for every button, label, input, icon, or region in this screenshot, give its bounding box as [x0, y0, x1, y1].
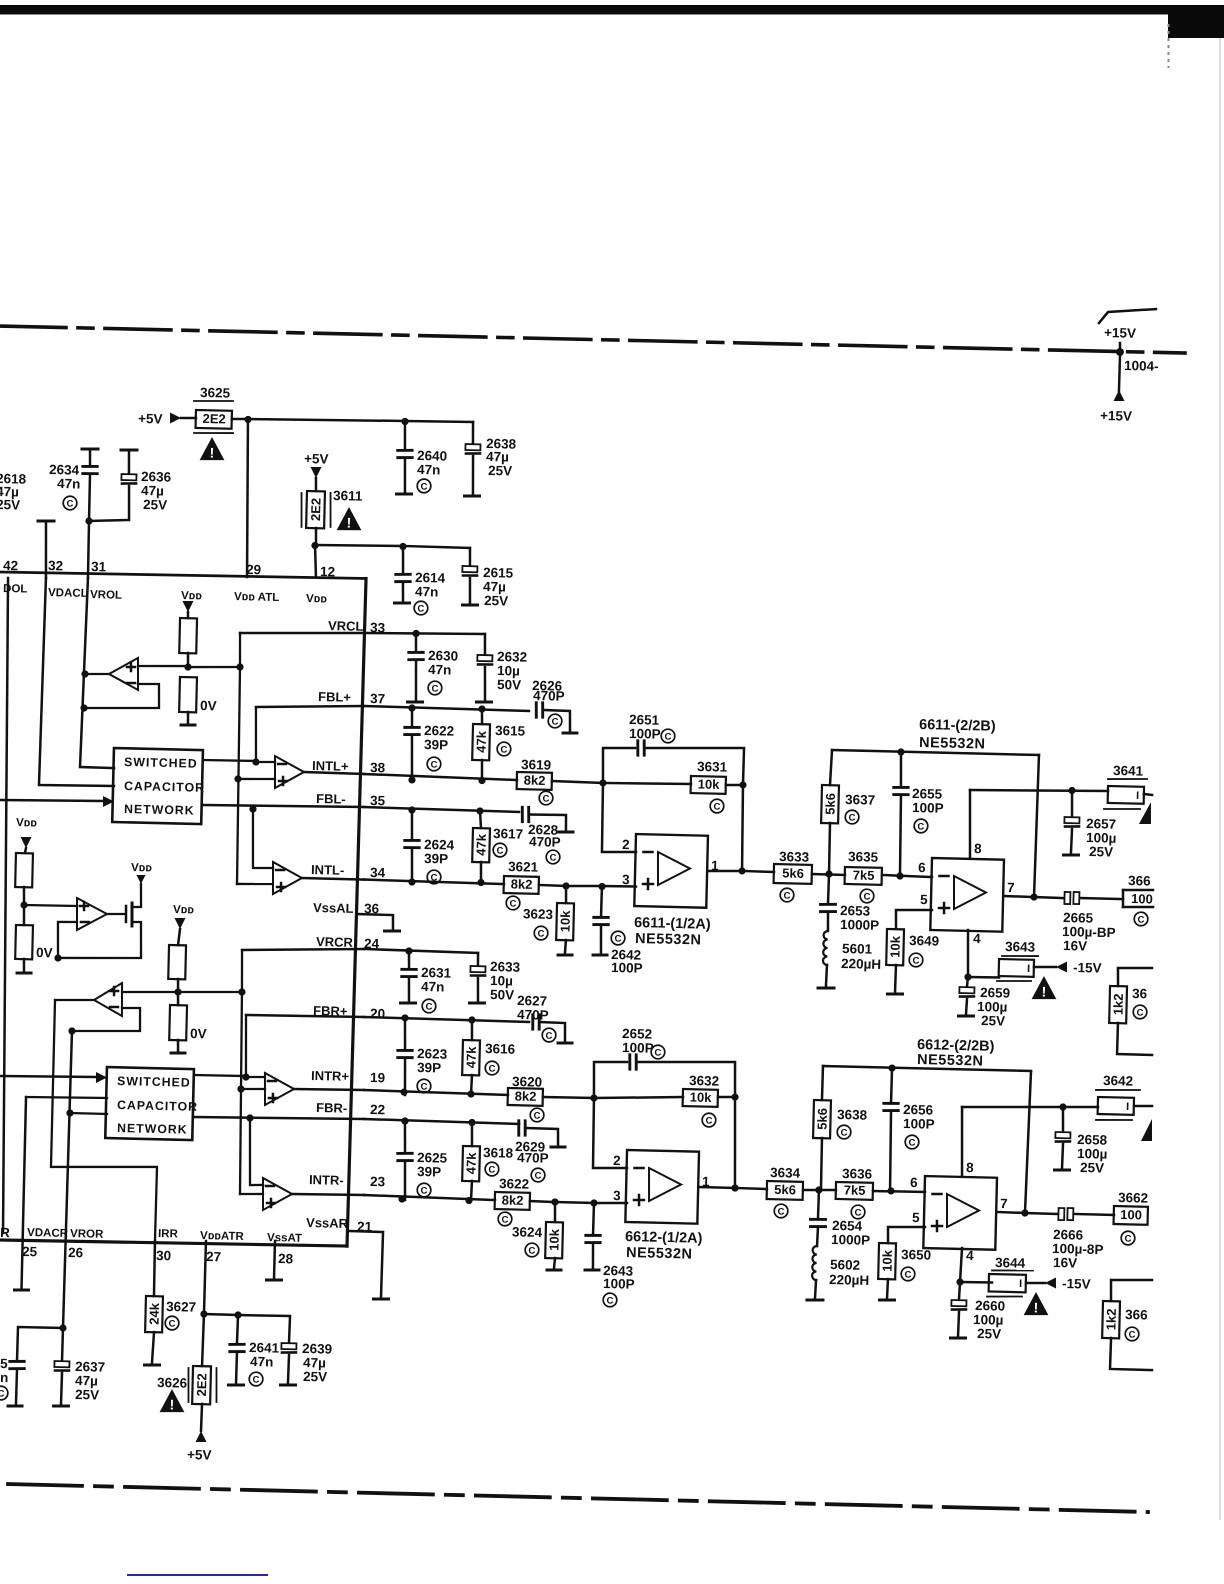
svg-text:47k: 47k — [463, 1046, 479, 1069]
pin 34 INTL- label — [311, 862, 386, 880]
node divider R mid — [122, 986, 246, 998]
resistor 3667 1k2 — [1101, 1279, 1154, 1370]
capacitor 2622 39P — [404, 708, 455, 781]
warning triangle at 3611 — [337, 507, 362, 531]
svg-text:3625: 3625 — [200, 385, 231, 401]
svg-text:3619: 3619 — [521, 757, 551, 773]
capacitor 2627 470P — [516, 993, 566, 1041]
warning triangle at 3644 — [1024, 1292, 1049, 1316]
svg-text:16V: 16V — [1063, 938, 1087, 954]
ground 2631 — [401, 1001, 416, 1005]
resistor divider L upper — [179, 618, 197, 667]
svg-text:C: C — [917, 821, 924, 832]
svg-text:INTR+: INTR+ — [311, 1068, 350, 1084]
svg-text:C: C — [501, 1214, 508, 1225]
node VROL filter junction — [84, 517, 93, 578]
op-amp U6612 (2/2B) NE5532N — [923, 1106, 998, 1250]
resistor 3662 100 — [1114, 1190, 1149, 1225]
pin 20 FBR+ label — [313, 1003, 385, 1021]
ground 2639 — [281, 1383, 296, 1387]
pin 35 FBL- label — [316, 791, 386, 808]
svg-text:0V: 0V — [36, 945, 53, 960]
resistor 3622 8k2 — [495, 1176, 556, 1211]
svg-text:C: C — [1124, 1234, 1131, 1245]
svg-text:25V: 25V — [488, 463, 512, 479]
resistor 3617 47k — [472, 811, 524, 883]
svg-text:100P: 100P — [629, 726, 661, 742]
resistor 3623 10k — [522, 885, 574, 953]
wire 6612B feedback rail — [822, 1063, 1031, 1105]
copyright mark 3638 — [837, 1125, 851, 1139]
op-amp INTL+ (internal) — [274, 756, 364, 790]
svg-text:8k2: 8k2 — [524, 772, 546, 788]
capacitor 2642 100P — [592, 886, 644, 976]
ground 26x5 — [8, 1404, 22, 1408]
capacitor 2658 100u 25V (electrolytic) — [1054, 1107, 1108, 1176]
svg-text:3633: 3633 — [779, 849, 810, 865]
resistor divider L lower 0V — [179, 677, 217, 724]
wire INTL- row pin 34 — [364, 876, 504, 888]
wire VRCR internal riser — [235, 950, 248, 1194]
capacitor 2630 47n — [408, 633, 459, 701]
svg-text:30: 30 — [156, 1248, 171, 1263]
svg-text:VRCL: VRCL — [328, 618, 364, 634]
svg-text:3: 3 — [613, 1188, 621, 1203]
svg-text:27: 27 — [206, 1249, 221, 1264]
label VDD mid block — [15, 817, 37, 853]
node 6612A inverting net — [590, 1094, 597, 1101]
capacitor 2638 47u 25V (electrolytic) — [464, 422, 517, 495]
pin 21 VssAR stub — [304, 1215, 390, 1299]
svg-text:VRCR: VRCR — [316, 934, 354, 950]
node 3637/2653 tap — [825, 870, 832, 877]
node 6611A inverting net — [599, 779, 606, 786]
svg-text:+15V: +15V — [1104, 325, 1136, 341]
wire INTR+ row pin 19 — [364, 1088, 508, 1099]
svg-text:C: C — [168, 1319, 175, 1330]
svg-text:I: I — [1027, 963, 1030, 975]
pin labels top inside — [3, 583, 328, 607]
svg-text:5: 5 — [912, 1210, 920, 1225]
svg-text:8k2: 8k2 — [502, 1192, 524, 1208]
resistor 3645 1k2 — [1108, 967, 1154, 1055]
svg-text:220µH: 220µH — [841, 956, 881, 972]
svg-text:100P: 100P — [611, 960, 643, 976]
wire SCN R out to INTR+ inv — [194, 1014, 267, 1081]
svg-text:C: C — [606, 1295, 613, 1306]
svg-text:VssAL: VssAL — [313, 900, 354, 916]
svg-text:C: C — [417, 604, 424, 615]
svg-text:R: R — [0, 1225, 10, 1240]
resistor 3649 10k — [886, 929, 940, 993]
copyright mark 2631 — [422, 999, 436, 1013]
capacitor 2640 47n — [397, 421, 448, 493]
wire FBR+ row pin 20 — [246, 1011, 529, 1025]
capacitor 2666 100u-8P 16V (bipolar) — [1052, 1208, 1115, 1272]
svg-text:+5V: +5V — [187, 1447, 212, 1463]
copyright mark 3661 — [1134, 912, 1148, 926]
svg-text:47n: 47n — [57, 476, 81, 492]
svg-text:+15V: +15V — [1100, 408, 1132, 424]
svg-text:+5V: +5V — [138, 411, 163, 427]
wire mid feedback — [54, 921, 77, 962]
wire data input R with arrow — [0, 1070, 107, 1084]
wire VRCR row external — [364, 946, 478, 956]
ground divider R — [171, 1051, 185, 1055]
svg-text:C: C — [1128, 1329, 1135, 1340]
svg-text:5: 5 — [0, 1356, 8, 1371]
wire 3611 to 2614/2615 — [315, 541, 470, 552]
op-amp U6611 (2/2B) NE5532N — [930, 789, 1005, 932]
copyright mark 2625 — [417, 1183, 431, 1197]
svg-text:42: 42 — [3, 558, 18, 573]
wire SCN L out to INTL+ inv — [203, 707, 276, 766]
wire VDACR into SCN R — [22, 1096, 108, 1290]
svg-text:!: ! — [209, 444, 214, 460]
svg-text:IRR: IRR — [158, 1228, 179, 1240]
copyright mark 3633 — [780, 888, 794, 902]
svg-text:VssAT: VssAT — [267, 1232, 302, 1245]
wire FBR- drop to INTR- inv — [245, 1114, 265, 1185]
resistor 3621 8k2 — [504, 859, 567, 895]
boundary dash-dot line (top) — [0, 325, 1185, 354]
switched capacitor network R — [105, 1067, 199, 1140]
svg-text:C: C — [551, 717, 558, 728]
svg-text:1k2: 1k2 — [1110, 993, 1126, 1015]
svg-text:C: C — [912, 955, 919, 966]
svg-text:C: C — [854, 1208, 861, 1219]
ground 5602 — [807, 1298, 823, 1302]
copyright mark 3637 — [845, 810, 859, 824]
svg-text:37: 37 — [370, 691, 385, 706]
svg-text:0V: 0V — [200, 698, 217, 713]
svg-text:47k: 47k — [463, 1152, 479, 1175]
svg-text:47n: 47n — [428, 662, 452, 678]
node 2642 tap — [598, 871, 636, 890]
svg-text:3662: 3662 — [1118, 1190, 1148, 1206]
svg-text:8k2: 8k2 — [511, 876, 533, 892]
svg-text:22: 22 — [370, 1102, 385, 1117]
svg-text:C: C — [534, 1171, 541, 1182]
copyright mark 3632 — [702, 1113, 716, 1127]
resistor 3624 10k — [511, 1201, 563, 1268]
copyright mark 3636 — [851, 1205, 865, 1219]
label +5V (left feed) — [138, 411, 196, 427]
resistor divider R lower 0V — [169, 992, 208, 1052]
svg-text:NE5532N: NE5532N — [626, 1245, 693, 1263]
resistor mid lower 0V — [15, 905, 54, 972]
pin 23 INTR- label — [309, 1172, 386, 1189]
svg-text:C: C — [904, 1269, 911, 1280]
capacitor 2643 100P — [585, 1203, 637, 1292]
svg-text:Vᴅᴅ ATL: Vᴅᴅ ATL — [234, 591, 279, 604]
svg-text:25V: 25V — [484, 593, 508, 609]
svg-text:7: 7 — [1000, 1196, 1008, 1211]
op-amp INTR+ (internal) — [264, 1073, 364, 1107]
capacitor 2665 100u-BP 16V (bipolar) — [1062, 892, 1124, 955]
svg-text:1k2: 1k2 — [1103, 1308, 1119, 1330]
resistor 3638 5k6 — [812, 1100, 868, 1190]
svg-text:39P: 39P — [417, 1060, 441, 1076]
copyright mark 2630 — [428, 681, 442, 695]
svg-text:3: 3 — [622, 872, 630, 887]
svg-text:I: I — [1126, 1101, 1129, 1113]
svg-text:3627: 3627 — [166, 1299, 196, 1315]
svg-text:C: C — [537, 929, 544, 940]
node mid divider — [20, 901, 77, 910]
svg-text:NE5532N: NE5532N — [917, 1052, 984, 1070]
copyright mark 3635 — [860, 889, 874, 903]
pin 36 VssAL stub — [313, 900, 401, 932]
terminal VssAT pin 28 stub — [266, 1241, 282, 1281]
svg-text:VROR: VROR — [70, 1228, 104, 1241]
svg-text:C: C — [783, 891, 790, 902]
ground 2615 — [463, 603, 478, 607]
resistor 3619 8k2 — [517, 757, 604, 791]
copyright mark 3615 — [497, 742, 511, 756]
capacitor 2628 470P — [521, 807, 566, 850]
inductor 5602 220uH — [812, 1246, 870, 1299]
svg-text:C: C — [509, 898, 516, 909]
resistor 3616 47k — [462, 1020, 517, 1096]
node pin12 rail junction — [311, 542, 318, 549]
svg-text:25V: 25V — [0, 497, 20, 513]
wire divider L to VRCL node — [183, 632, 244, 884]
wire pin12 feed — [314, 545, 316, 577]
svg-text:FBL-: FBL- — [316, 791, 346, 807]
capacitor 2632 10u 50V (electrolytic) — [476, 634, 527, 701]
svg-text:47n: 47n — [250, 1354, 274, 1370]
svg-text:366: 366 — [1125, 1307, 1148, 1323]
capacitor 2655 100P — [892, 752, 945, 877]
svg-text:FBR-: FBR- — [316, 1100, 347, 1116]
svg-text:100P: 100P — [622, 1040, 654, 1056]
svg-text:6: 6 — [918, 860, 926, 875]
svg-text:39P: 39P — [424, 737, 448, 753]
label 6612-(1/2A) — [625, 1229, 703, 1263]
copyright mark 2642 — [611, 931, 625, 945]
svg-text:4: 4 — [973, 931, 981, 946]
op-amp buffer L (internal) — [84, 657, 188, 711]
pin 24 VRCR label — [316, 934, 380, 951]
label +5V (3611 feed) — [303, 451, 328, 491]
resistor mid upper — [15, 853, 33, 905]
svg-text:366: 366 — [1128, 873, 1151, 889]
svg-text:5k6: 5k6 — [782, 865, 804, 881]
node 3623 tap — [562, 882, 602, 890]
svg-text:7k5: 7k5 — [844, 1182, 866, 1198]
svg-text:3644: 3644 — [995, 1255, 1026, 1271]
copyright mark 3650 — [901, 1267, 915, 1281]
svg-text:INTL-: INTL- — [311, 862, 345, 878]
IC box right edge — [347, 578, 366, 1246]
wire VROR into SCN R — [66, 1109, 107, 1117]
label 6611-(2/2B) — [919, 717, 997, 753]
copyright mark 3621 — [506, 896, 520, 910]
copyright mark 3617 — [493, 843, 507, 857]
svg-text:C: C — [542, 794, 549, 805]
svg-text:10k: 10k — [698, 776, 721, 792]
wire 6612A pin2 — [592, 1098, 628, 1169]
node +15V junction 1004 — [1100, 348, 1159, 425]
svg-text:C: C — [705, 1116, 712, 1127]
op-amp INTL- (internal) — [272, 862, 364, 896]
wire INTR- row pin 23 — [364, 1194, 495, 1204]
capacitor 2653 1000P — [820, 874, 880, 933]
svg-text:3634: 3634 — [770, 1165, 801, 1181]
svg-text:3618: 3618 — [483, 1145, 514, 1161]
label 2618 47u 25V (cut at page edge) — [0, 471, 27, 513]
svg-text:100: 100 — [1120, 1207, 1142, 1223]
capacitor 2651 100P (feedback) — [602, 711, 745, 786]
copyright mark 2622 — [427, 757, 441, 771]
wire 6612B output pin7 — [997, 1070, 1060, 1217]
ground divider L — [181, 723, 195, 727]
svg-text:5k6: 5k6 — [774, 1182, 796, 1198]
resistor 3642 1ohm (fusible) — [1095, 1073, 1152, 1121]
svg-text:6611-(1/2A): 6611-(1/2A) — [634, 915, 711, 933]
resistor 3661 100 (cut at page edge) — [1123, 873, 1154, 908]
wire data input L with arrow — [0, 794, 114, 808]
svg-text:C: C — [430, 759, 437, 770]
svg-text:50V: 50V — [490, 987, 514, 1003]
resistor 3635 7k5 — [845, 849, 933, 886]
capacitor 2637 47u 25V (electrolytic) — [54, 1328, 107, 1405]
capacitor 2631 47n — [401, 951, 452, 1002]
svg-text:3617: 3617 — [493, 826, 523, 842]
copyright mark 2614 — [414, 601, 428, 615]
svg-text:NE5532N: NE5532N — [919, 735, 986, 753]
copyright mark 3618 — [485, 1162, 499, 1176]
boundary dash-dot line (bottom) — [8, 1484, 1148, 1512]
svg-text:Vᴅᴅ: Vᴅᴅ — [131, 862, 153, 874]
copyright mark 2624 — [427, 870, 441, 884]
resistor 3611 2E2 — [300, 487, 363, 546]
copyright mark 2626 — [548, 714, 562, 728]
ground 3627 — [145, 1363, 160, 1367]
svg-text:25V: 25V — [143, 497, 167, 513]
svg-text:+5V: +5V — [304, 451, 329, 467]
svg-text:C: C — [549, 853, 556, 864]
svg-text:100P: 100P — [603, 1276, 635, 1292]
svg-text:28: 28 — [278, 1251, 294, 1266]
copyright mark 2628 — [546, 850, 560, 864]
svg-text:C: C — [66, 499, 73, 510]
wire 6612A output riser — [733, 1097, 737, 1188]
ground 2658 — [1054, 1168, 1069, 1172]
svg-text:47n: 47n — [415, 584, 439, 600]
svg-text:DOL: DOL — [3, 583, 28, 596]
copyright mark 3662 — [1121, 1231, 1135, 1245]
svg-text:1000P: 1000P — [840, 917, 879, 933]
node 2655 tap — [896, 859, 926, 880]
node divider L mid — [184, 663, 191, 670]
ground 2628 stub — [559, 830, 573, 834]
svg-text:VDACR: VDACR — [27, 1227, 69, 1240]
svg-text:Vᴅᴅ: Vᴅᴅ — [173, 904, 195, 916]
copyright mark 3622 — [498, 1212, 512, 1226]
svg-text:3622: 3622 — [499, 1176, 529, 1192]
ground 5601 — [818, 986, 834, 990]
wire VDACL internal — [39, 578, 119, 787]
svg-text:3621: 3621 — [508, 859, 539, 875]
op-amp buffer R (internal) — [54, 981, 141, 1036]
svg-text:47n: 47n — [421, 979, 445, 995]
wire 6611A pin2 — [601, 783, 637, 853]
warning triangle at 3626 — [160, 1389, 185, 1413]
wire pin29 feed — [244, 419, 251, 577]
svg-text:C: C — [654, 1048, 661, 1059]
capacitor 26x5 47n (cut at page edge) — [0, 1356, 25, 1404]
svg-text:C: C — [1137, 914, 1144, 925]
svg-text:32: 32 — [48, 558, 63, 573]
ground 2632 — [476, 700, 491, 704]
svg-text:C: C — [488, 1064, 495, 1075]
wire VROL internal — [79, 578, 118, 768]
svg-text:CAPACITOR: CAPACITOR — [117, 1098, 198, 1114]
svg-text:3641: 3641 — [1113, 763, 1144, 779]
node 2643 tap — [590, 1187, 627, 1207]
wire +5V rail to caps — [248, 414, 473, 427]
svg-text:50V: 50V — [497, 677, 521, 693]
svg-text:3616: 3616 — [485, 1041, 516, 1057]
svg-text:NETWORK: NETWORK — [124, 802, 195, 818]
svg-text:6611-(2/2B): 6611-(2/2B) — [919, 717, 996, 735]
wire 6611A output riser — [741, 785, 744, 871]
ground 2630 — [408, 700, 423, 704]
ground 2637 — [54, 1404, 69, 1408]
svg-text:25V: 25V — [1080, 1160, 1104, 1176]
warning triangle at 3625 — [200, 437, 225, 461]
svg-text:2E2: 2E2 — [308, 498, 324, 521]
svg-text:470P: 470P — [533, 688, 565, 704]
svg-text:7k5: 7k5 — [853, 867, 875, 883]
node 3624 tap — [551, 1198, 594, 1206]
copyright mark 3631 — [710, 799, 724, 813]
power arrow -15V ch2 — [1045, 1276, 1091, 1292]
svg-text:5k6: 5k6 — [814, 1108, 830, 1130]
power arrow -15V ch1 — [1056, 960, 1102, 976]
svg-text:47k: 47k — [473, 730, 489, 753]
blue scan artifact line — [127, 1574, 268, 1576]
ground 2641 — [228, 1383, 243, 1387]
capacitor 2652 100P (feedback) — [593, 1025, 736, 1101]
resistor 3615 47k — [472, 709, 526, 781]
svg-text:Vᴅᴅ: Vᴅᴅ — [181, 590, 203, 602]
wire 6611B V+ rail — [970, 785, 1108, 795]
pin 22 FBR- label — [316, 1100, 385, 1117]
copyright mark 2651 — [661, 729, 675, 743]
svg-text:38: 38 — [370, 760, 386, 775]
op-amp INTR- (internal) — [262, 1178, 364, 1212]
wire 6611B pin4 — [964, 930, 1000, 981]
svg-text:INTL+: INTL+ — [312, 758, 349, 774]
ground 2640 — [397, 492, 412, 496]
copyright mark 3623 — [534, 926, 548, 940]
svg-text:7: 7 — [1007, 880, 1015, 895]
pin 19 INTR+ label — [311, 1068, 385, 1085]
svg-text:3632: 3632 — [689, 1073, 719, 1089]
wire 6612B V+ rail — [962, 1101, 1098, 1111]
svg-text:3624: 3624 — [512, 1224, 543, 1240]
label 6612-(2/2B) — [917, 1037, 995, 1070]
svg-text:SWITCHED: SWITCHED — [124, 755, 198, 771]
svg-text:3649: 3649 — [909, 933, 939, 949]
ground 3623 — [558, 953, 572, 957]
node +5V rail junction — [244, 416, 251, 423]
copyright mark 2641 — [249, 1372, 263, 1386]
capacitor 2623 39P — [397, 1018, 449, 1096]
